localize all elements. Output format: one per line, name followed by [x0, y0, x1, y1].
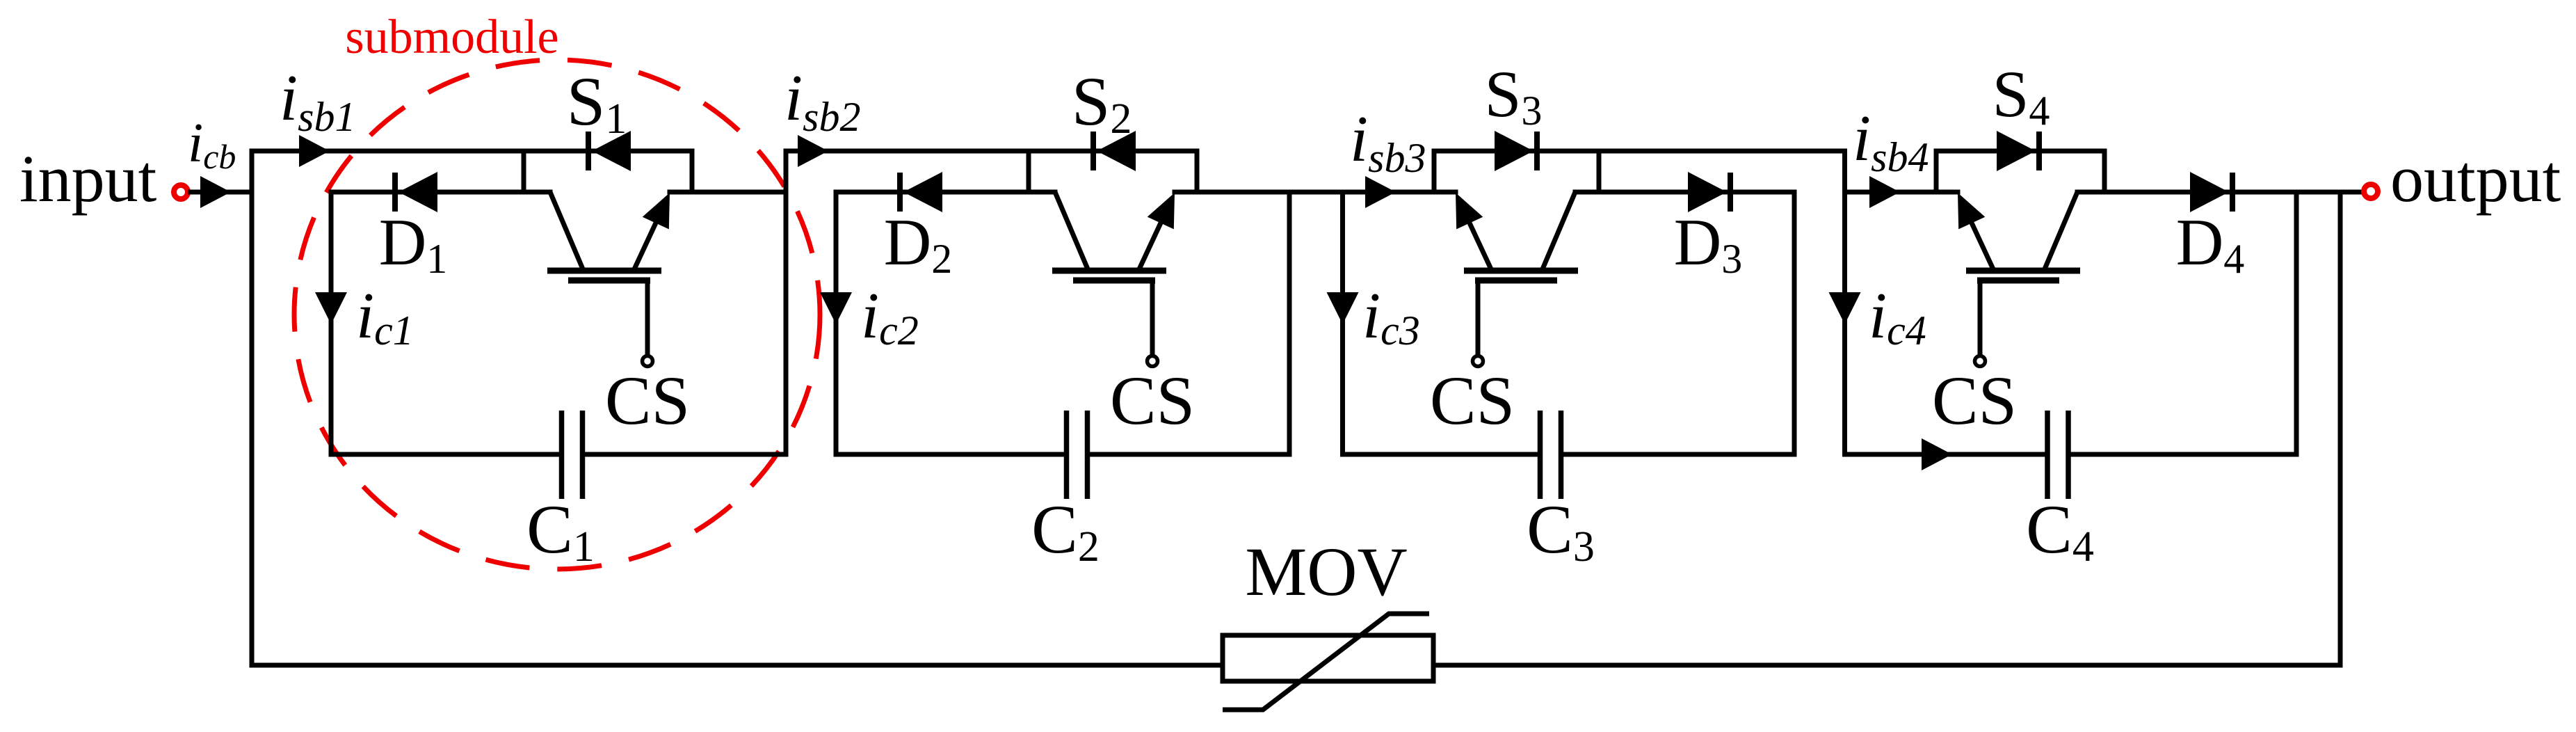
- wire S4 output bend: [2102, 151, 2107, 192]
- IGBT T1 body bar: [547, 268, 661, 274]
- diode S1: [586, 132, 591, 170]
- IGBT T3 emitter: [1463, 209, 1492, 271]
- gate terminal CS module 1: [643, 356, 653, 367]
- wire junction S1 to D1 rail: [522, 151, 526, 192]
- arrow on bottom rail module 4: [1922, 438, 1952, 470]
- wire D4 rail to output: [2077, 190, 2362, 195]
- gate terminal CS module 3: [1473, 356, 1483, 367]
- arrow i_sb1: [299, 135, 330, 167]
- wire bottom rail right module 2: [1090, 452, 1289, 457]
- IGBT T2 gate bar: [1073, 278, 1155, 284]
- wire top rail module 2: [786, 149, 1197, 154]
- IGBT T4 gate bar: [1977, 278, 2059, 284]
- arrow i_sb2: [798, 135, 828, 167]
- gate terminal CS module 4: [1975, 356, 1986, 367]
- wire bottom rail left module 1: [331, 452, 559, 457]
- capacitor C1: [559, 411, 565, 499]
- terminal input (red circle): [174, 185, 188, 199]
- wire D1 rail module 1: [331, 190, 550, 195]
- wire MOV rail right: [1433, 663, 2340, 668]
- wire top rail module 1: [252, 149, 692, 154]
- gate terminal CS module 2: [1148, 356, 1158, 367]
- node module 4 output vertical: [2294, 192, 2299, 454]
- IGBT T4 emitter: [1965, 209, 1994, 271]
- IGBT T1 gate bar: [568, 278, 650, 284]
- arrow i_c1: [315, 292, 347, 324]
- wire top rail module 3: [1434, 149, 1845, 154]
- svg-text:CS: CS: [1932, 362, 2017, 439]
- svg-text:MOV: MOV: [1245, 533, 1407, 610]
- IGBT T1 gate lead: [645, 280, 650, 356]
- wire emitter rail module 1: [670, 190, 786, 195]
- terminal output (red circle): [2364, 184, 2378, 198]
- diode D4: [2230, 173, 2235, 212]
- arrow i_c3: [1327, 292, 1359, 324]
- svg-text:CS: CS: [605, 362, 690, 439]
- diode S2: [1090, 132, 1096, 170]
- wire bottom rail left module 3: [1343, 452, 1538, 457]
- arrow i_sb3: [1365, 176, 1396, 208]
- wire junction S2 to D2 rail: [1027, 151, 1031, 192]
- IGBT T3 gate bar: [1475, 278, 1557, 284]
- capacitor C3: [1538, 411, 1543, 499]
- wire junction input to S3 rail: [1432, 151, 1437, 192]
- IGBT T4 collector: [2044, 192, 2077, 271]
- arrow i_c4: [1829, 292, 1861, 324]
- wire bottom rail left module 4: [1845, 452, 2045, 457]
- svg-text:output: output: [2390, 141, 2561, 216]
- wire input to node A: [191, 190, 252, 195]
- node module 3 output / capacitor branch module 4: [1842, 151, 1847, 454]
- IGBT T3 body bar: [1464, 268, 1578, 274]
- wire D3 rail module 3: [1575, 190, 1794, 195]
- diode D2: [897, 173, 903, 212]
- IGBT T2 emitter: [1138, 209, 1167, 271]
- svg-text:CS: CS: [1430, 362, 1515, 439]
- wire S3 to D3 rail junction: [1597, 151, 1602, 192]
- arrow i_c2: [820, 292, 852, 324]
- wire link rail module 2 to module 3: [1175, 190, 1456, 195]
- wire MOV rail left: [252, 663, 1223, 668]
- varistor MOV strike: [1223, 614, 1429, 710]
- wire output riser: [2338, 192, 2343, 665]
- submodule annotation dashed circle: [294, 60, 820, 569]
- node module 2 output vertical: [1287, 192, 1292, 454]
- IGBT T2 gate lead: [1150, 280, 1155, 356]
- wire bottom rail left module 2: [836, 452, 1064, 457]
- IGBT T3 gate lead: [1476, 280, 1481, 356]
- node A left vertical wire: [250, 151, 255, 665]
- diode D3: [1728, 173, 1733, 212]
- arrow i_sb4: [1869, 176, 1900, 208]
- wire S1 output bend: [690, 151, 695, 192]
- wire D2 rail module 2: [836, 190, 1055, 195]
- varistor MOV body: [1223, 635, 1433, 681]
- diode S3: [1534, 132, 1540, 170]
- IGBT T3 collector: [1542, 192, 1575, 271]
- IGBT T4 body bar: [1966, 268, 2080, 274]
- node module 1 output vertical: [784, 151, 789, 454]
- IGBT T2 body bar: [1052, 268, 1166, 274]
- IGBT T1 collector: [550, 192, 583, 271]
- wire bottom rail right module 1: [585, 452, 786, 457]
- IGBT T4 gate lead: [1978, 280, 1983, 356]
- arrow i_cb on input wire: [200, 176, 231, 208]
- capacitor C4: [2045, 411, 2050, 499]
- svg-text:submodule: submodule: [345, 10, 558, 64]
- IGBT T1 emitter: [634, 209, 662, 271]
- wire bottom rail right module 3: [1563, 452, 1794, 457]
- svg-text:input: input: [19, 141, 157, 216]
- wire top rail module 4: [1936, 149, 2104, 154]
- svg-text:CS: CS: [1110, 362, 1195, 439]
- wire junction input to S4 rail: [1934, 151, 1939, 192]
- node module 3 output vertical: [1792, 192, 1797, 454]
- wire capacitor branch module 1: [329, 192, 334, 454]
- diode D1: [392, 173, 398, 212]
- wire S2 output bend: [1195, 151, 1200, 192]
- wire i_sb4 rail: [1845, 190, 1958, 195]
- IGBT T2 collector: [1055, 192, 1088, 271]
- capacitor C2: [1064, 411, 1070, 499]
- wire bottom rail right module 4: [2070, 452, 2296, 457]
- wire capacitor branch module 3: [1340, 192, 1345, 454]
- wire capacitor branch module 2: [834, 192, 839, 454]
- diode S4: [2036, 132, 2042, 170]
